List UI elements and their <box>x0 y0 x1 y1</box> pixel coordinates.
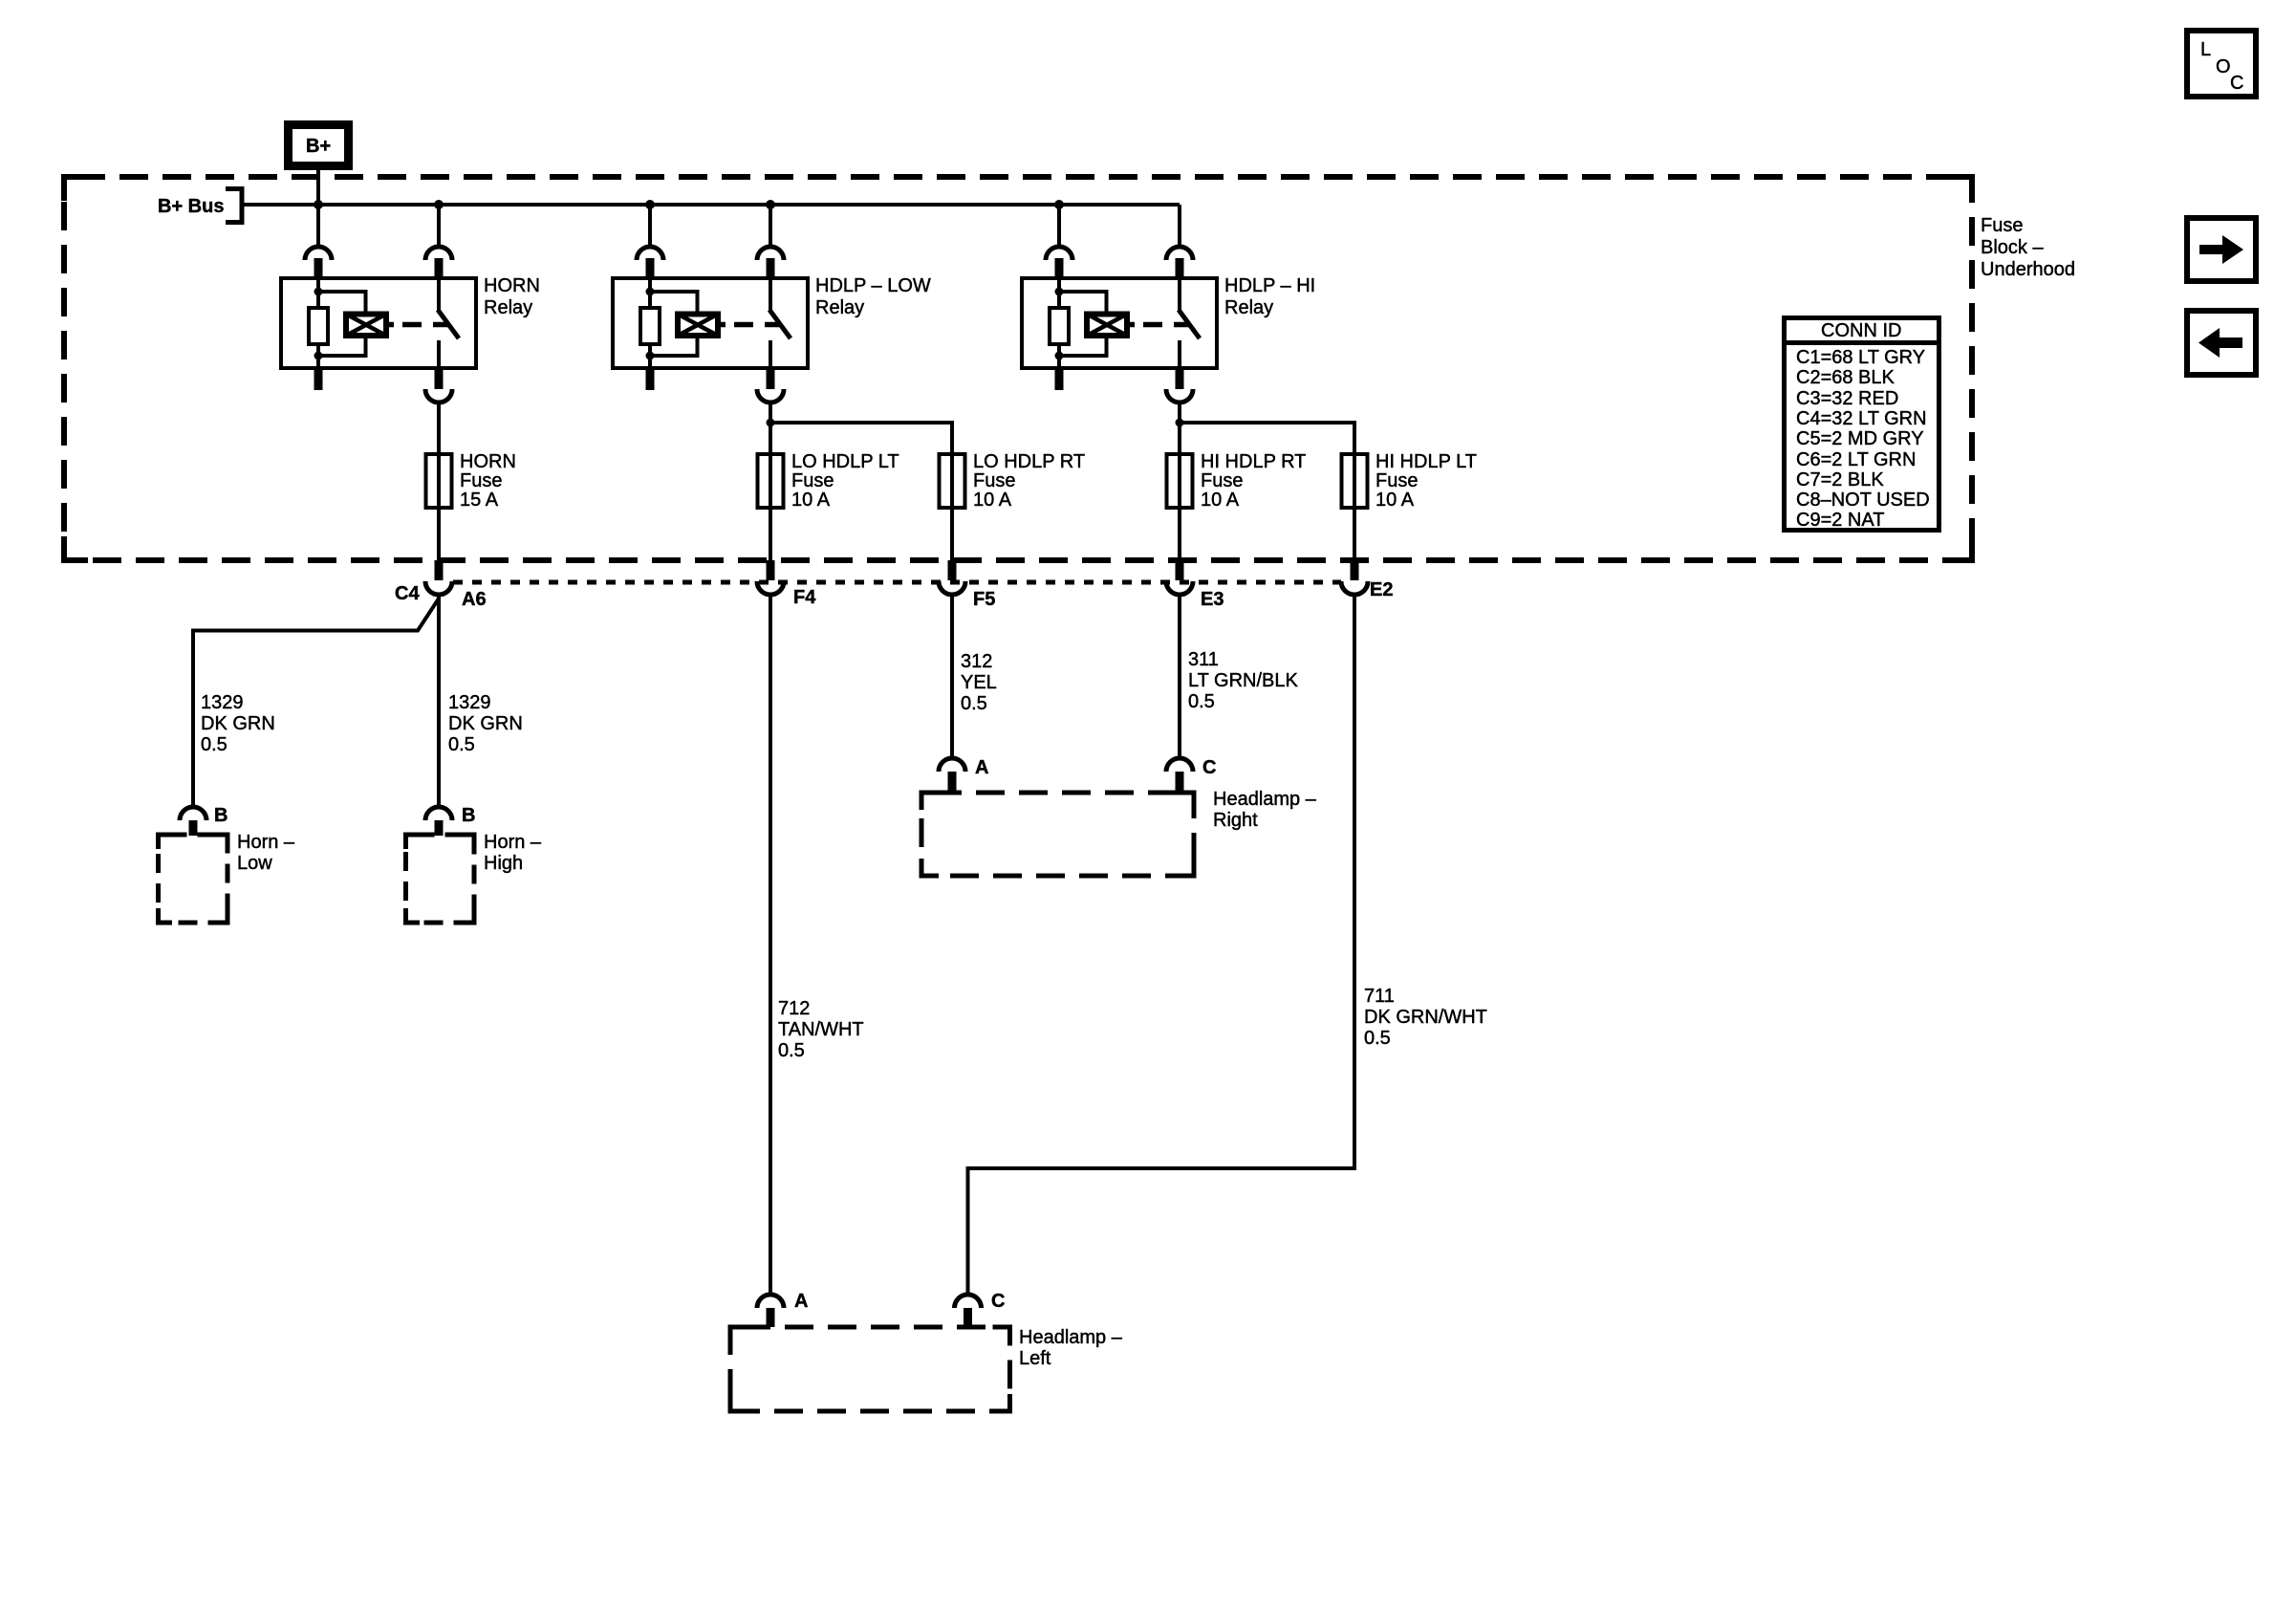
svg-text:A: A <box>794 1291 808 1312</box>
B+ Bus bracket <box>226 189 242 223</box>
relay K1 HORN Relay <box>281 278 476 368</box>
connector arc above HI coil pin <box>1046 247 1072 278</box>
wire LOW switch down through LT fuse <box>769 403 772 560</box>
svg-text:Block –: Block – <box>1981 237 2044 258</box>
node dot bus/B+ <box>314 200 323 209</box>
svg-text:O: O <box>2216 56 2231 77</box>
svg-text:DK GRN: DK GRN <box>448 713 523 734</box>
svg-text:0.5: 0.5 <box>778 1040 805 1061</box>
connector arc above HORN coil pin <box>305 247 332 278</box>
svg-text:HI HDLP LT: HI HDLP LT <box>1375 451 1477 472</box>
right arrow nav box <box>2187 218 2256 281</box>
svg-text:E3: E3 <box>1201 589 1224 610</box>
connector arc above LOW coil pin <box>637 247 663 278</box>
svg-text:C1=68 LT GRY: C1=68 LT GRY <box>1796 347 1925 368</box>
svg-text:0.5: 0.5 <box>1188 691 1215 712</box>
svg-text:Left: Left <box>1019 1348 1051 1369</box>
wire 311 LT GRN/BLK from E3 to Headlamp Right C <box>1178 595 1181 758</box>
wire 1329 DK GRN branch to Horn Low <box>193 599 439 807</box>
svg-text:Headlamp –: Headlamp – <box>1019 1327 1123 1348</box>
svg-text:C6=2 LT GRN: C6=2 LT GRN <box>1796 449 1916 470</box>
svg-text:1329: 1329 <box>448 692 491 713</box>
svg-text:Right: Right <box>1213 810 1258 831</box>
svg-text:C8–NOT USED: C8–NOT USED <box>1796 490 1930 511</box>
svg-text:C9=2 NAT: C9=2 NAT <box>1796 510 1884 531</box>
wire label 712 TAN/WHT 0.5 <box>778 998 864 1061</box>
svg-text:A: A <box>975 757 988 778</box>
wire bus to HDLP-LOW relay switch <box>769 205 772 247</box>
wire branch to LO HDLP RT fuse <box>770 423 952 560</box>
HI coil ground stub <box>1055 368 1064 390</box>
svg-text:B+ Bus: B+ Bus <box>158 196 224 217</box>
connector C at Headlamp Right <box>1166 758 1193 793</box>
LO HDLP RT fuse label <box>973 451 1085 511</box>
svg-text:C: C <box>991 1291 1005 1312</box>
svg-text:10 A: 10 A <box>791 490 831 511</box>
svg-text:712: 712 <box>778 998 810 1019</box>
svg-text:Relay: Relay <box>484 297 532 318</box>
connector row dotted line C2 <box>453 580 1341 585</box>
svg-text:Fuse: Fuse <box>1981 215 2023 236</box>
svg-text:TAN/WHT: TAN/WHT <box>778 1019 864 1040</box>
fuse F3 LO HDLP RT 10A <box>940 454 965 508</box>
svg-text:711: 711 <box>1364 986 1395 1007</box>
svg-text:C2=68 BLK: C2=68 BLK <box>1796 367 1895 388</box>
CONN ID table <box>1782 318 1941 532</box>
wire B+ feed to bus and HORN relay coil <box>316 170 320 247</box>
wire 1329 DK GRN to Horn High <box>437 595 441 807</box>
svg-text:Low: Low <box>237 853 272 874</box>
svg-text:C: C <box>2230 73 2243 94</box>
svg-text:B+: B+ <box>306 136 331 157</box>
svg-text:0.5: 0.5 <box>201 734 227 755</box>
wire HORN switch to fuse to C4 <box>437 403 441 560</box>
svg-text:C7=2 BLK: C7=2 BLK <box>1796 469 1884 490</box>
HORN coil ground stub <box>314 368 323 390</box>
svg-text:CONN ID: CONN ID <box>1821 320 1901 341</box>
svg-text:A6: A6 <box>462 589 487 610</box>
svg-text:Underhood: Underhood <box>1981 259 2075 280</box>
connector B at Horn Low <box>180 807 206 836</box>
HORN fuse label <box>460 451 516 511</box>
svg-text:HORN: HORN <box>484 275 540 296</box>
svg-text:Fuse: Fuse <box>1201 470 1243 491</box>
wire 712 TAN/WHT from F4 to Headlamp Left A <box>769 595 772 1295</box>
connector C at Headlamp Left <box>955 1295 982 1327</box>
connector A at Headlamp Right <box>939 758 965 793</box>
B+ power symbol box <box>289 125 349 166</box>
connector arc above LOW switch pin <box>757 247 784 278</box>
wire bus to HORN relay switch <box>437 205 441 247</box>
svg-text:HDLP – HI: HDLP – HI <box>1224 275 1315 296</box>
fuse F1 HORN 15A <box>426 454 452 508</box>
connector F5 <box>939 560 965 595</box>
svg-text:Fuse: Fuse <box>973 470 1015 491</box>
wire bus to HDLP-LOW relay coil <box>648 205 652 247</box>
svg-text:Fuse: Fuse <box>1375 470 1418 491</box>
fuse F2 LO HDLP LT 10A <box>758 454 784 508</box>
svg-text:10 A: 10 A <box>1375 490 1415 511</box>
Horn High label <box>484 832 542 874</box>
wire label 1329 DK GRN 0.5 right <box>448 692 523 755</box>
svg-text:10 A: 10 A <box>1201 490 1240 511</box>
HDLP-HI Relay label <box>1224 275 1315 318</box>
connector below HORN switch <box>425 368 452 403</box>
svg-text:HI HDLP RT: HI HDLP RT <box>1201 451 1306 472</box>
svg-text:YEL: YEL <box>961 672 997 693</box>
svg-text:0.5: 0.5 <box>961 693 987 714</box>
svg-text:LT GRN/BLK: LT GRN/BLK <box>1188 670 1299 691</box>
Headlamp Left label <box>1019 1327 1123 1369</box>
svg-text:E2: E2 <box>1370 579 1393 600</box>
connector E2 <box>1341 560 1368 595</box>
svg-text:C5=2 MD GRY: C5=2 MD GRY <box>1796 428 1924 449</box>
relay K2 HDLP-LOW Relay <box>613 278 808 368</box>
connector F4 <box>757 560 784 595</box>
svg-text:Relay: Relay <box>1224 297 1273 318</box>
wire label 711 DK GRN/WHT 0.5 <box>1364 986 1487 1049</box>
node dot <box>645 200 655 209</box>
svg-text:LO HDLP LT: LO HDLP LT <box>791 451 899 472</box>
connector arc above HORN switch pin <box>425 247 452 278</box>
fuse block underhood dashed border <box>64 177 1972 560</box>
svg-text:Headlamp –: Headlamp – <box>1213 789 1317 810</box>
node dot <box>434 200 444 209</box>
B+ bus wire <box>242 203 1180 207</box>
svg-text:DK GRN/WHT: DK GRN/WHT <box>1364 1007 1487 1028</box>
node dot <box>1054 200 1064 209</box>
connector E3 <box>1166 560 1193 595</box>
wire label 1329 DK GRN 0.5 left <box>201 692 275 755</box>
Headlamp Left dashed box <box>730 1327 1010 1411</box>
svg-text:312: 312 <box>961 651 992 672</box>
connector B at Horn High <box>425 807 452 836</box>
Horn High dashed box <box>406 835 475 923</box>
connector C4/A6 <box>425 560 452 595</box>
relay K3 HDLP-HI Relay <box>1022 278 1217 368</box>
svg-text:B: B <box>462 805 475 826</box>
wire HI switch down through RT fuse <box>1178 403 1181 560</box>
wire branch to HI HDLP LT fuse <box>1180 423 1354 560</box>
LOW coil ground stub <box>646 368 655 390</box>
svg-text:HORN: HORN <box>460 451 516 472</box>
svg-text:C3=32 RED: C3=32 RED <box>1796 388 1898 409</box>
wire 312 YEL from F5 to Headlamp Right A <box>950 595 954 758</box>
connector arc above HI switch pin <box>1166 247 1193 278</box>
svg-text:B: B <box>214 805 227 826</box>
svg-text:F4: F4 <box>793 587 816 608</box>
svg-text:HDLP – LOW: HDLP – LOW <box>815 275 931 296</box>
svg-text:1329: 1329 <box>201 692 244 713</box>
LOC reference box <box>2187 31 2256 97</box>
wire bus to HDLP-HI relay coil <box>1057 205 1061 247</box>
svg-text:10 A: 10 A <box>973 490 1012 511</box>
HI HDLP LT fuse label <box>1375 451 1477 511</box>
svg-text:C4: C4 <box>395 583 420 604</box>
left arrow nav box <box>2187 311 2256 375</box>
svg-text:0.5: 0.5 <box>1364 1028 1391 1049</box>
wire bus corner to HDLP-HI relay switch <box>1178 205 1181 247</box>
svg-text:Horn –: Horn – <box>484 832 542 853</box>
svg-text:LO HDLP RT: LO HDLP RT <box>973 451 1085 472</box>
connector below LOW switch <box>757 368 784 403</box>
node dot LOW branch <box>767 419 775 427</box>
svg-text:Fuse: Fuse <box>460 470 502 491</box>
svg-text:DK GRN: DK GRN <box>201 713 275 734</box>
connector below HI switch <box>1166 368 1193 403</box>
wire 711 DK GRN/WHT from E2 to Headlamp Left C <box>968 595 1355 1295</box>
node dot <box>766 200 775 209</box>
fuse F5 HI HDLP LT 10A <box>1342 454 1368 508</box>
LO HDLP LT fuse label <box>791 451 899 511</box>
svg-text:Horn –: Horn – <box>237 832 295 853</box>
HORN Relay label <box>484 275 540 318</box>
svg-text:F5: F5 <box>973 589 995 610</box>
HDLP-LOW Relay label <box>815 275 931 318</box>
svg-text:L: L <box>2200 39 2211 60</box>
Headlamp Right label <box>1213 789 1317 831</box>
Horn Low dashed box <box>159 835 228 923</box>
wire label 311 LT GRN/BLK 0.5 <box>1188 649 1299 712</box>
svg-text:Relay: Relay <box>815 297 864 318</box>
svg-text:15 A: 15 A <box>460 490 499 511</box>
svg-text:Fuse: Fuse <box>791 470 834 491</box>
wire label 312 YEL 0.5 <box>961 651 997 714</box>
Fuse Block - Underhood label <box>1981 215 2075 280</box>
svg-text:C4=32 LT GRN: C4=32 LT GRN <box>1796 408 1927 429</box>
svg-text:C: C <box>1202 757 1216 778</box>
svg-text:0.5: 0.5 <box>448 734 475 755</box>
node dot HI branch <box>1176 419 1184 427</box>
svg-text:High: High <box>484 853 523 874</box>
HI HDLP RT fuse label <box>1201 451 1306 511</box>
connector A at Headlamp Left <box>757 1295 784 1327</box>
fuse F4 HI HDLP RT 10A <box>1167 454 1193 508</box>
svg-text:311: 311 <box>1188 649 1219 670</box>
Horn Low label <box>237 832 295 874</box>
Headlamp Right dashed box <box>921 793 1194 876</box>
